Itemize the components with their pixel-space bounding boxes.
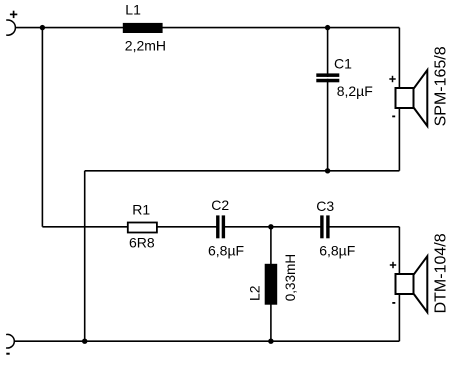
wire mid vertical xyxy=(84,171,86,341)
svg-text:0,33mH: 0,33mH xyxy=(283,254,298,301)
svg-text:2,2mH: 2,2mH xyxy=(125,37,166,53)
svg-text:6R8: 6R8 xyxy=(129,235,155,251)
wire L2 branch xyxy=(270,227,272,341)
wire return rail xyxy=(85,170,400,172)
junction node L2 bottom xyxy=(268,339,273,344)
wire top rail xyxy=(15,27,399,29)
label - (input polarity) xyxy=(6,353,9,355)
svg-text:6,8µF: 6,8µF xyxy=(319,243,355,259)
wire mid rail xyxy=(42,226,399,228)
junction node C2/C3/L2 xyxy=(268,224,273,229)
wire right vertical (bottom circuit) xyxy=(398,227,400,341)
svg-text:DTM-104/8: DTM-104/8 xyxy=(433,233,450,313)
capacitor C3 xyxy=(320,215,329,238)
svg-text:L1: L1 xyxy=(125,2,141,18)
speaker SPM-165/8 xyxy=(396,70,428,126)
label + (input polarity) xyxy=(10,11,17,18)
resistor R1 xyxy=(128,223,157,233)
capacitor C2 xyxy=(216,215,225,238)
wire bottom rail xyxy=(14,340,399,342)
junction C1 top xyxy=(325,25,330,30)
svg-text:8,2µF: 8,2µF xyxy=(337,83,373,99)
svg-text:C3: C3 xyxy=(316,198,334,214)
label + (DTM) xyxy=(390,262,396,268)
label - (DTM) xyxy=(392,302,395,304)
svg-text:C1: C1 xyxy=(334,56,352,72)
speaker DTM-104/8 xyxy=(396,256,428,312)
inductor L2 xyxy=(265,264,278,305)
label - (SPM) xyxy=(392,115,395,117)
svg-text:L2: L2 xyxy=(246,285,262,301)
wire right vertical (top circuit) xyxy=(398,28,400,171)
junction node bottom-left xyxy=(82,339,87,344)
svg-text:6,8µF: 6,8µF xyxy=(208,243,244,259)
svg-text:R1: R1 xyxy=(132,202,150,218)
svg-text:SPM-165/8: SPM-165/8 xyxy=(433,46,450,126)
wire C1 branch xyxy=(327,28,329,171)
wire left vertical xyxy=(41,28,43,227)
inductor L1 xyxy=(123,23,163,33)
input terminal + xyxy=(6,20,15,35)
input terminal - xyxy=(6,334,14,348)
label + (SPM) xyxy=(389,76,395,82)
junction node top-left xyxy=(40,25,45,30)
junction C1 bottom xyxy=(325,168,330,173)
capacitor C1 xyxy=(316,73,339,82)
svg-text:C2: C2 xyxy=(211,197,229,213)
